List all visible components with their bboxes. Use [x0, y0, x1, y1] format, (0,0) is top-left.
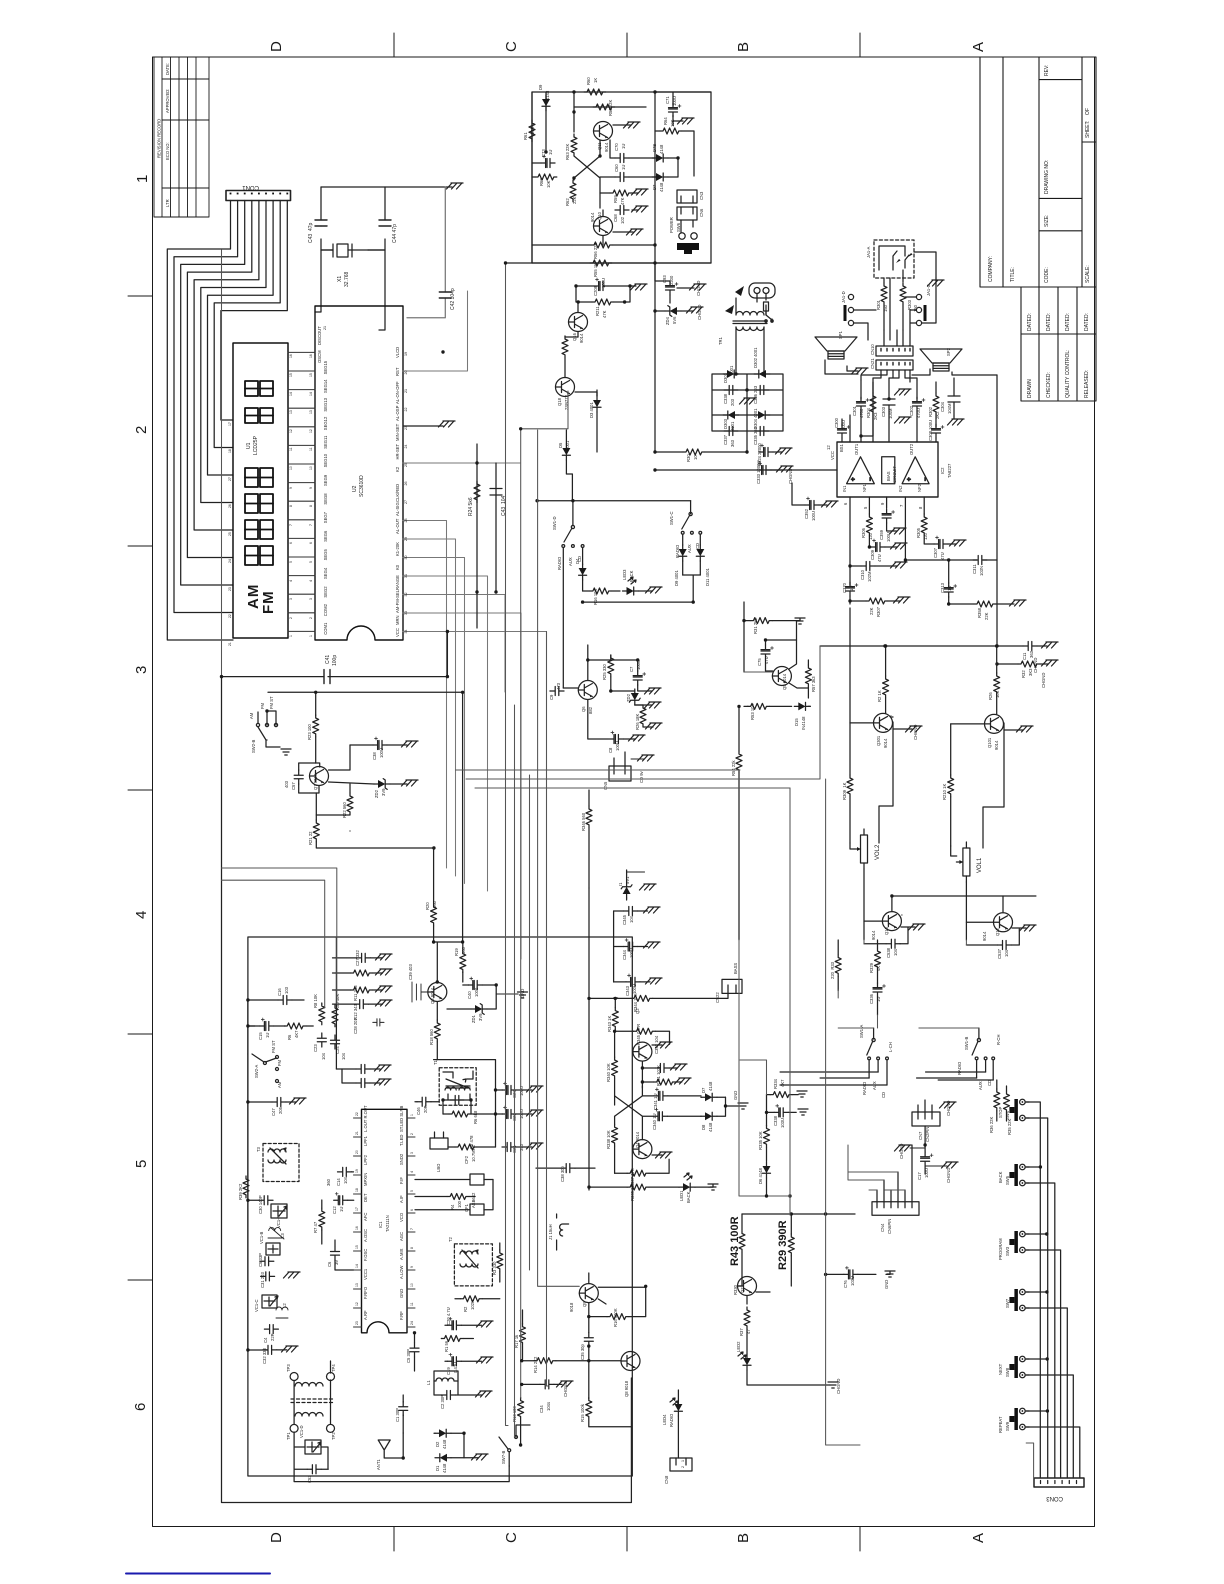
- svg-text:FM ST: FM ST: [269, 696, 274, 709]
- display left pin numbers: [228, 422, 232, 646]
- connector CN21: [876, 360, 913, 370]
- connector CN6: [677, 207, 697, 220]
- ground C359: [890, 528, 907, 534]
- transistor Q15 9014: [882, 912, 901, 931]
- button SW7: [1009, 1289, 1029, 1311]
- wire fan pin4: [187, 201, 251, 558]
- capacitor C43: [321, 187, 332, 250]
- transistor Q4 9014: [633, 1140, 652, 1159]
- diode D302 4001: [754, 370, 770, 378]
- wire Q12: [966, 896, 1026, 928]
- svg-text:100p: 100p: [332, 655, 338, 666]
- svg-text:R302: R302: [928, 406, 933, 417]
- svg-text:363: 363: [730, 439, 735, 447]
- wire AUX contact: [691, 533, 693, 535]
- svg-text:BACK: BACK: [629, 570, 634, 582]
- svg-text:R63 22K: R63 22K: [565, 143, 570, 160]
- svg-text:FM: FM: [260, 590, 277, 614]
- svg-text:SW6: SW6: [676, 222, 681, 232]
- ground C338: [798, 1109, 808, 1115]
- svg-text:22: 22: [228, 614, 232, 618]
- svg-text:CHGND: CHGND: [899, 1144, 904, 1159]
- svg-text:31: 31: [404, 574, 408, 578]
- svg-text:7: 7: [289, 524, 293, 526]
- svg-text:SEG13: SEG13: [323, 397, 328, 411]
- top ticks: [393, 33, 395, 57]
- svg-text:R26 18K: R26 18K: [635, 713, 640, 730]
- svg-text:102: 102: [620, 216, 625, 224]
- svg-text:104M: 104M: [888, 408, 893, 419]
- transistor Q10 9014: [594, 217, 613, 236]
- svg-text:C38 30p: C38 30p: [560, 1165, 565, 1182]
- resistor R344 10K: [631, 995, 653, 1001]
- wire fan pin1: [167, 201, 233, 641]
- connector CON3: [1034, 1478, 1084, 1487]
- svg-text:D15: D15: [794, 718, 799, 726]
- svg-text:A: A: [970, 1533, 987, 1543]
- svg-text:JA1-D: JA1-D: [841, 291, 846, 303]
- resistor R3 330: [497, 1250, 503, 1272]
- resistor R338 10K: [612, 1124, 618, 1146]
- svg-text:D4: D4: [575, 558, 580, 564]
- svg-text:C537: C537: [997, 948, 1002, 959]
- svg-text:C9: C9: [549, 694, 554, 700]
- resistor R60 1K: [584, 89, 606, 95]
- trimmer VC1-D: [305, 1440, 321, 1454]
- svg-text:SEG9: SEG9: [323, 474, 328, 486]
- resistor R5 478: [455, 1144, 477, 1150]
- coil T3 dashed: [263, 1144, 299, 1182]
- svg-text:Q5 9014: Q5 9014: [782, 673, 787, 690]
- svg-text:OUT1: OUT1: [854, 443, 859, 455]
- svg-text:A.LOW: A.LOW: [399, 1265, 404, 1279]
- wire top R43 rail: [742, 1214, 855, 1234]
- svg-text:4148: 4148: [442, 1439, 447, 1449]
- labels SW1: [859, 1025, 1012, 1234]
- wire to Q5: [692, 601, 694, 603]
- svg-text:FM: FM: [277, 1059, 282, 1066]
- svg-text:24: 24: [410, 1321, 414, 1325]
- svg-text:C337: C337: [723, 434, 728, 445]
- bus wire h crossing2: [466, 646, 820, 779]
- svg-text:882: 882: [588, 706, 593, 714]
- ground C342: [671, 1064, 688, 1070]
- svg-text:J1 15uH: J1 15uH: [548, 1224, 553, 1240]
- svg-text:R21 22: R21 22: [308, 831, 313, 845]
- svg-text:JA1-A: JA1-A: [866, 246, 871, 258]
- capacitor C5 30P: [410, 1343, 419, 1357]
- svg-text:4: 4: [309, 580, 313, 582]
- labels bottom flip-flop: [606, 961, 881, 1203]
- resistor R25 330: [608, 655, 614, 677]
- svg-text:14: 14: [289, 392, 293, 396]
- svg-text:R56 22K: R56 22K: [593, 242, 598, 259]
- svg-text:R22 560: R22 560: [342, 801, 347, 818]
- ground C333 CHGND: [777, 466, 794, 472]
- ground Q12: [1020, 925, 1037, 931]
- transistor Q3 9014: [428, 983, 447, 1002]
- bus wire v3: [521, 391, 568, 1398]
- svg-text:C93: C93: [662, 275, 667, 283]
- svg-text:Q301: Q301: [876, 735, 881, 746]
- svg-text:6: 6: [410, 1209, 414, 1211]
- capacitor C47 205: [272, 1098, 286, 1107]
- ground C310: [891, 562, 908, 568]
- resistor R24 5k6: [474, 481, 480, 503]
- svg-text:VC1-D: VC1-D: [299, 1425, 304, 1438]
- wire fan pin3: [181, 201, 245, 586]
- svg-text:28: 28: [404, 519, 408, 523]
- capacitor C338 103U: [774, 1104, 788, 1117]
- left rail: [588, 888, 590, 1190]
- capacitor C21 353: [502, 1143, 516, 1152]
- wire SP2: [912, 369, 997, 375]
- svg-text:C300: C300: [834, 417, 839, 428]
- wire left column: [248, 1000, 255, 1350]
- svg-text:3: 3: [410, 1152, 414, 1154]
- jack contacts: [879, 246, 909, 270]
- capacitor C17 100U: [921, 1152, 934, 1166]
- wire h to Q5 base: [744, 671, 772, 673]
- svg-text:4K7: 4K7: [780, 1079, 785, 1087]
- svg-text:2: 2: [133, 426, 150, 434]
- svg-text:2: 2: [681, 1466, 685, 1468]
- 7seg digits row6: [245, 546, 258, 565]
- capacitor C304 104M: [948, 396, 960, 402]
- svg-text:3: 3: [309, 598, 313, 600]
- ground R307: [894, 597, 911, 603]
- svg-text:R335 1K: R335 1K: [630, 1184, 635, 1201]
- svg-text:C303: C303: [881, 406, 886, 417]
- resistor R308 22K: [974, 601, 996, 607]
- diode D8 4148: [701, 1112, 717, 1120]
- resistor R58 22K: [574, 106, 646, 108]
- svg-text:19: 19: [404, 352, 408, 356]
- resistor R302 2K2: [933, 393, 939, 415]
- wire AM: [257, 712, 259, 723]
- transistor Q6: [578, 681, 597, 700]
- svg-text:C308 100U: C308 100U: [928, 420, 933, 441]
- labels amp: [804, 401, 1046, 688]
- switch after fuse: [766, 311, 772, 323]
- resistor R210 1K: [948, 775, 954, 797]
- svg-text:10: 10: [309, 466, 313, 470]
- LED2: [743, 1354, 751, 1370]
- svg-text:C47: C47: [271, 1108, 276, 1116]
- svg-text:DRAWING NO:: DRAWING NO:: [1044, 160, 1050, 194]
- capacitor C308 100U: [932, 424, 945, 438]
- svg-text:363: 363: [1029, 650, 1034, 658]
- svg-text:VC1-B: VC1-B: [259, 1231, 264, 1244]
- svg-text:C342 104: C342 104: [654, 1035, 659, 1054]
- resistor R62 22K: [570, 180, 576, 202]
- svg-text:R64: R64: [663, 117, 668, 125]
- labels VOL: [842, 690, 1009, 959]
- switch SW1-B: [977, 1038, 980, 1041]
- svg-text:104: 104: [343, 1176, 348, 1184]
- svg-text:104: 104: [893, 948, 898, 956]
- svg-text:100U: 100U: [672, 96, 677, 106]
- capacitor C38 30p: [561, 1164, 575, 1173]
- svg-text:ST.LED SLNB: ST.LED SLNB: [399, 1105, 404, 1132]
- capacitor C324 22000: [759, 444, 773, 457]
- capacitor C345 104: [624, 907, 638, 916]
- svg-text:C359: C359: [879, 529, 884, 540]
- svg-text:VC1-C: VC1-C: [254, 1299, 259, 1312]
- svg-text:24: 24: [228, 559, 232, 563]
- wire R24 rail: [476, 444, 478, 628]
- LED1 BACK: [679, 1183, 695, 1191]
- svg-text:R15 100k: R15 100k: [580, 1403, 585, 1422]
- svg-text:CHGND: CHGND: [946, 1101, 951, 1116]
- svg-text:C11: C11: [1022, 652, 1027, 660]
- svg-text:26: 26: [404, 482, 408, 486]
- resistor R4 100: [447, 1194, 469, 1200]
- svg-text:1U: 1U: [548, 150, 553, 155]
- resistor R32 3K3: [1018, 661, 1040, 667]
- svg-text:R14 2K2: R14 2K2: [533, 1356, 538, 1373]
- transistor Q2a 9014: [633, 1042, 652, 1061]
- svg-text:9: 9: [410, 1266, 414, 1268]
- svg-text:1U: 1U: [621, 165, 626, 170]
- 7seg digits row2: [245, 408, 258, 423]
- wire Q101 emitter to VOL1: [983, 723, 1004, 848]
- svg-text:103U: 103U: [780, 1118, 785, 1128]
- svg-text:Q3 9014: Q3 9014: [430, 987, 435, 1004]
- resistor R36 22K: [994, 1089, 1000, 1111]
- svg-text:C208: C208: [593, 285, 598, 296]
- resistor R335b 10K: [764, 1125, 770, 1147]
- capacitor C208 100U: [594, 278, 608, 291]
- coil T1 dashed: [439, 1068, 476, 1106]
- switch SW1-A: [872, 1038, 875, 1041]
- svg-text:C5 30P: C5 30P: [406, 1349, 411, 1363]
- svg-text:AL-SIG: AL-SIG: [395, 502, 400, 516]
- capacitor C12 1U: [334, 1192, 348, 1205]
- svg-text:CN8: CN8: [664, 1475, 669, 1484]
- ground C22: [527, 1110, 544, 1116]
- svg-text:LED4: LED4: [662, 1414, 667, 1425]
- svg-text:21: 21: [404, 389, 408, 393]
- capacitor C341 1U: [654, 1088, 668, 1101]
- inductor J1 15uH: [560, 1224, 569, 1236]
- zener ZD1 3V9: [471, 1004, 487, 1015]
- svg-text:IC2: IC2: [940, 467, 945, 474]
- labels Q6: [549, 660, 644, 790]
- ground ZD2: [402, 780, 419, 786]
- svg-text:C4: C4: [263, 1337, 268, 1343]
- jack JA1-D circles: [848, 294, 853, 299]
- capacitor C537 104: [997, 941, 1011, 950]
- svg-text:CHGND: CHGND: [788, 469, 793, 484]
- svg-text:D302 4001: D302 4001: [753, 347, 758, 368]
- svg-text:Q2: Q2: [635, 1008, 640, 1014]
- svg-text:VOL1: VOL1: [977, 857, 983, 873]
- svg-text:4001: 4001: [729, 365, 734, 375]
- svg-text:16: 16: [309, 354, 313, 358]
- svg-text:RELEASED:: RELEASED:: [1084, 370, 1090, 398]
- svg-text:4001: 4001: [730, 421, 735, 431]
- svg-text:DET: DET: [363, 1193, 368, 1202]
- svg-text:TP4: TP4: [331, 1364, 336, 1372]
- svg-text:LED3: LED3: [622, 569, 627, 580]
- svg-text:1000: 1000: [474, 987, 479, 997]
- capacitor C342 104: [655, 1064, 669, 1073]
- capacitor C336 1U: [873, 983, 886, 997]
- svg-text:R32: R32: [1021, 670, 1026, 678]
- resistor R19 560: [460, 951, 466, 973]
- svg-text:25: 25: [228, 532, 232, 536]
- svg-text:SW2-A: SW2-A: [254, 1065, 259, 1078]
- resistor R335 1K: [627, 1184, 649, 1190]
- svg-text:TITLE:: TITLE:: [1010, 267, 1016, 282]
- capacitor C359 100U: [882, 509, 895, 523]
- wires into IC2 top: [849, 415, 851, 442]
- svg-text:R60: R60: [539, 178, 544, 186]
- wire bundle h2: [222, 880, 325, 1008]
- capacitor C25 153: [356, 1065, 370, 1074]
- svg-text:4148: 4148: [659, 144, 664, 154]
- svg-text:L3: L3: [280, 1233, 285, 1238]
- svg-text:VC1-A: VC1-A: [276, 1215, 281, 1228]
- power switch SW6: [679, 233, 685, 239]
- capacitor C340 1U: [653, 1108, 667, 1121]
- wire bundle h1: [222, 868, 337, 1004]
- bus wire v6: [538, 501, 580, 1287]
- wire join diodes: [683, 575, 701, 602]
- wire Q301 base: [850, 722, 874, 724]
- capacitor C20 4.7U: [447, 1317, 461, 1330]
- svg-text:TR1: TR1: [718, 336, 723, 345]
- ground C7: [645, 688, 662, 694]
- svg-text:R43 100R: R43 100R: [729, 1216, 741, 1266]
- resistor R14 2K2: [534, 1358, 556, 1364]
- svg-text:7: 7: [309, 524, 313, 526]
- svg-text:CN4: CN4: [880, 1223, 885, 1232]
- svg-text:360: 360: [326, 1178, 331, 1186]
- svg-text:100U: 100U: [811, 511, 816, 521]
- ground U2 k pin: [439, 421, 456, 427]
- diode D11 4001: [696, 545, 704, 561]
- capacitor C4 22P: [264, 1325, 278, 1334]
- svg-text:103N: 103N: [979, 566, 984, 576]
- resistor R29: [788, 1234, 794, 1256]
- wires SW1 row: [780, 1072, 887, 1085]
- svg-text:COM1: COM1: [323, 622, 328, 635]
- svg-text:REPEAT: REPEAT: [998, 1416, 1003, 1433]
- ground mid: [895, 389, 912, 395]
- svg-text:C: C: [503, 41, 520, 52]
- svg-text:R50 10K: R50 10K: [335, 993, 340, 1010]
- svg-text:BACK: BACK: [998, 1171, 1003, 1183]
- svg-text:AL-OUT: AL-OUT: [395, 518, 400, 534]
- svg-text:R6: R6: [287, 1034, 292, 1040]
- svg-text:CF2: CF2: [464, 1155, 469, 1164]
- ground SP1: [852, 368, 869, 374]
- svg-text:203: 203: [730, 398, 735, 406]
- ground C31: [284, 1272, 301, 1278]
- diode D7 4148: [701, 1093, 717, 1101]
- ground C17 CHGND left: [895, 1145, 912, 1151]
- resistor R57 3K3: [805, 665, 811, 687]
- svg-text:47U: 47U: [940, 552, 945, 560]
- svg-text:12: 12: [355, 1302, 359, 1306]
- capacitor C8 100U: [609, 731, 623, 744]
- svg-text:ZD4: ZD4: [665, 316, 670, 325]
- wire long rail: [820, 645, 997, 647]
- svg-text:1U: 1U: [849, 586, 854, 591]
- ground C21: [527, 1143, 544, 1149]
- IC1 labels: [363, 1105, 404, 1320]
- svg-text:ZD2: ZD2: [626, 693, 631, 702]
- 7seg digits row3: [245, 468, 258, 487]
- ground jack: [928, 280, 945, 286]
- svg-text:D9 4001: D9 4001: [674, 569, 679, 586]
- wire top rail branch: [532, 92, 655, 263]
- ground CN7 CHGND: [940, 1102, 957, 1108]
- svg-text:Q101: Q101: [987, 737, 992, 748]
- svg-text:BACK: BACK: [686, 1191, 691, 1203]
- svg-text:+: +: [851, 477, 857, 481]
- svg-text:SEG12: SEG12: [323, 416, 328, 430]
- resistor R17 1k: [520, 1324, 526, 1346]
- svg-text:R303: R303: [907, 299, 912, 310]
- wire bridge to rails: [746, 431, 748, 452]
- svg-text:A: A: [970, 42, 987, 52]
- resistor R55 1K: [590, 260, 612, 266]
- svg-text:K2: K2: [395, 466, 400, 472]
- svg-text:SEG15: SEG15: [323, 360, 328, 374]
- resistor R33 220: [835, 955, 841, 977]
- svg-text:RADIO: RADIO: [862, 1081, 867, 1095]
- IC1 pin stubs left: [354, 1118, 362, 1327]
- svg-text:DATED:: DATED:: [1084, 313, 1090, 331]
- svg-text:100U: 100U: [924, 1168, 929, 1178]
- wire rail: [268, 691, 463, 693]
- capacitor C22 100U: [502, 1106, 516, 1119]
- svg-text:C31 203: C31 203: [260, 1271, 265, 1288]
- svg-text:9014: 9014: [871, 930, 876, 940]
- svg-text:103U: 103U: [850, 1276, 855, 1286]
- svg-text:C42 104p: C42 104p: [450, 288, 456, 310]
- svg-text:AM: AM: [249, 712, 254, 719]
- capacitor C29 100U: [502, 1082, 516, 1095]
- svg-text:F.RFO: F.RFO: [363, 1286, 368, 1299]
- resistor R6 4K7: [284, 1023, 306, 1029]
- svg-text:26: 26: [228, 504, 232, 508]
- svg-text:1K: 1K: [593, 78, 598, 83]
- IC1 body: [362, 1109, 408, 1333]
- switch SW2-A: [263, 1062, 266, 1065]
- connector CN8: [670, 1458, 692, 1471]
- svg-text:D3 4001: D3 4001: [589, 401, 594, 418]
- svg-text:R24 5k6: R24 5k6: [468, 497, 474, 516]
- svg-text:20P: 20P: [423, 1105, 428, 1113]
- svg-text:CN2PIN: CN2PIN: [925, 1127, 930, 1142]
- ground C8: [629, 735, 646, 741]
- svg-text:C75: C75: [757, 658, 762, 666]
- coil VCT-B L3: [268, 1227, 284, 1239]
- resistor R16 100K: [607, 1314, 629, 1320]
- svg-text:B: B: [735, 42, 752, 52]
- svg-text:4148: 4148: [659, 182, 664, 192]
- wire jack to gnd: [914, 252, 936, 278]
- svg-text:C71: C71: [665, 96, 670, 104]
- connector CN22 BASS: [722, 979, 742, 993]
- svg-text:4700: 4700: [859, 408, 864, 418]
- svg-text:Q11: Q11: [597, 142, 602, 150]
- wire column: [614, 911, 618, 998]
